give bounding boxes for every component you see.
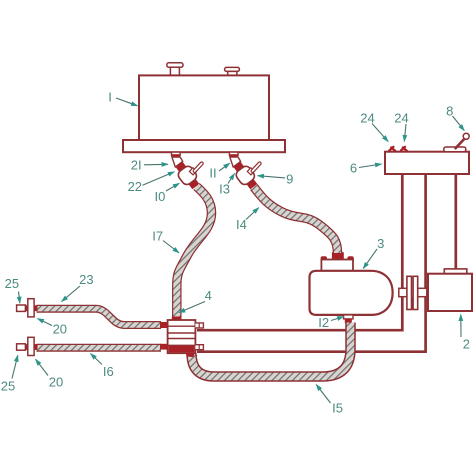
svg-text:6: 6 bbox=[350, 160, 357, 175]
svg-text:25: 25 bbox=[1, 378, 15, 393]
svg-text:I6: I6 bbox=[103, 364, 114, 379]
svg-text:20: 20 bbox=[53, 321, 67, 336]
svg-text:II: II bbox=[209, 165, 216, 180]
svg-text:23: 23 bbox=[79, 272, 93, 287]
svg-text:I2: I2 bbox=[318, 315, 329, 330]
svg-text:I7: I7 bbox=[152, 229, 163, 244]
svg-text:4: 4 bbox=[205, 288, 212, 303]
svg-text:25: 25 bbox=[5, 276, 19, 291]
svg-text:20: 20 bbox=[49, 375, 63, 390]
svg-text:22: 22 bbox=[128, 179, 142, 194]
svg-text:I: I bbox=[108, 90, 112, 105]
svg-text:9: 9 bbox=[286, 172, 293, 187]
svg-text:2I: 2I bbox=[131, 158, 142, 173]
svg-text:I5: I5 bbox=[332, 401, 343, 416]
svg-text:I3: I3 bbox=[219, 182, 230, 197]
svg-text:24: 24 bbox=[394, 111, 408, 126]
svg-text:I0: I0 bbox=[154, 189, 165, 204]
svg-text:2: 2 bbox=[463, 337, 470, 352]
svg-text:3: 3 bbox=[377, 236, 384, 251]
svg-text:I4: I4 bbox=[236, 217, 247, 232]
